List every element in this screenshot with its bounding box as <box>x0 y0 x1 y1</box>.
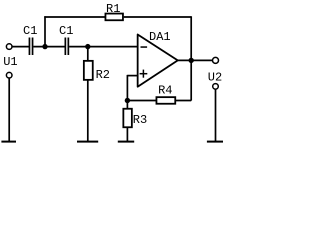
terminal U1 bottom <box>6 72 12 78</box>
svg-text:R4: R4 <box>158 84 172 98</box>
wire U2 bottom to ground <box>215 89 217 141</box>
resistor R2 <box>84 61 93 80</box>
wire top to R1 <box>44 16 105 18</box>
node junction J3 <box>125 98 130 103</box>
wire R2 to ground <box>87 80 89 142</box>
svg-text:C1: C1 <box>23 24 37 38</box>
svg-text:U1: U1 <box>3 55 17 69</box>
non-inverting input plus sign <box>140 73 148 75</box>
ground (below R3) <box>118 141 134 143</box>
wire op-amp output to U2 <box>178 59 213 61</box>
wire feedback riser left <box>44 16 46 46</box>
svg-text:C1: C1 <box>59 24 73 38</box>
svg-text:U2: U2 <box>208 70 222 84</box>
wire R3 to ground <box>126 128 128 142</box>
wire J3 to R4 <box>127 100 156 102</box>
terminal U1 top <box>6 44 12 50</box>
svg-text:R2: R2 <box>96 68 110 82</box>
wire down from + input to node J3 <box>126 75 128 109</box>
wire right riser to output node and down to R4 <box>190 16 192 100</box>
terminal U2 top <box>213 57 219 63</box>
capacitor C1 (first) <box>29 38 31 56</box>
ground (below R2) <box>77 141 98 143</box>
node junction J2 <box>85 44 90 49</box>
ground (below U2) <box>207 141 223 143</box>
svg-text:R1: R1 <box>106 2 120 16</box>
wire C1 to C1 (through node) <box>33 46 64 48</box>
svg-text:R3: R3 <box>133 113 147 127</box>
resistor R3 <box>123 109 132 128</box>
inverting input minus sign <box>141 46 148 48</box>
wire J2 down to R2 <box>87 47 89 61</box>
terminal U2 bottom <box>213 84 219 90</box>
op-amp DA1 <box>138 34 178 86</box>
svg-text:DA1: DA1 <box>149 30 171 44</box>
wire non-inverting input <box>127 75 137 77</box>
wire R4 to output riser <box>175 100 191 102</box>
wire R1 to right corner <box>124 16 192 18</box>
resistor R1 <box>105 14 123 21</box>
node junction J1 <box>42 44 47 49</box>
capacitor C1 (second) <box>65 38 67 56</box>
node junction output <box>189 58 194 63</box>
wire U1 top terminal to C1 <box>12 46 29 48</box>
ground (below U1) <box>1 141 16 143</box>
wire C1 to op-amp inverting input <box>69 46 137 48</box>
resistor R4 <box>156 97 175 104</box>
wire U1 bottom to ground <box>8 78 10 141</box>
